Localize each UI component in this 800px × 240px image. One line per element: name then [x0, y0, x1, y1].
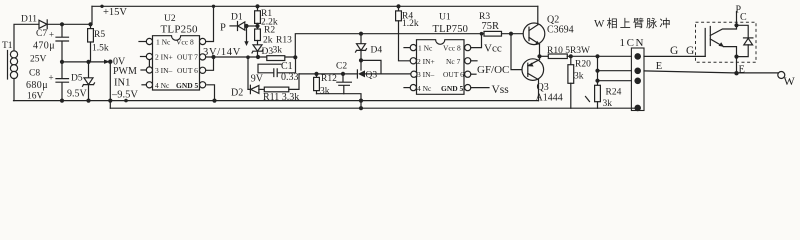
svg-text:1CN: 1CN — [620, 37, 646, 49]
capacitor C1 — [258, 57, 296, 76]
U2 pin2 stub — [141, 56, 147, 58]
Vcc line from R13 node up and right — [295, 34, 484, 58]
svg-text:D4: D4 — [371, 45, 383, 55]
svg-text:TLP750: TLP750 — [433, 24, 469, 35]
+15V rail — [92, 5, 538, 7]
U2 pin7 output wire — [206, 56, 296, 58]
svg-text:3V/14V: 3V/14V — [203, 47, 241, 58]
svg-text:D2: D2 — [231, 88, 243, 99]
svg-text:R2: R2 — [264, 26, 275, 36]
U1 pin1 stub — [404, 47, 410, 49]
svg-text:E: E — [739, 65, 745, 76]
svg-text:IN1: IN1 — [114, 78, 130, 89]
E wire to W terminal — [644, 71, 778, 73]
svg-text:2 IN+: 2 IN+ — [155, 53, 173, 62]
svg-text:+15V: +15V — [103, 7, 127, 18]
svg-text:R5: R5 — [94, 30, 105, 40]
wire IN- net — [299, 73, 357, 75]
U2 pin circles — [146, 38, 152, 44]
svg-text:GND 5: GND 5 — [176, 81, 199, 90]
arrow to Q3 with label — [356, 70, 358, 78]
svg-text:Vcc: Vcc — [484, 42, 502, 54]
svg-text:3k: 3k — [320, 86, 330, 96]
svg-text:3k: 3k — [574, 72, 584, 82]
svg-text:A1444: A1444 — [536, 93, 563, 104]
-9.5V rail (rail1) — [14, 100, 539, 102]
rail tie at x=111 and bottom rail2 — [109, 101, 111, 109]
svg-text:3k: 3k — [603, 99, 613, 109]
svg-text:Vcc 8: Vcc 8 — [176, 38, 194, 47]
svg-text:W相上臂脉冲: W相上臂脉冲 — [594, 16, 673, 30]
svg-text:470μ: 470μ — [33, 41, 55, 52]
node 0V wire with arrow — [62, 61, 105, 63]
U1 pin6 wire GF/OC — [471, 73, 476, 75]
IGBT Q inside module — [704, 29, 706, 57]
svg-text:D1: D1 — [231, 12, 243, 22]
svg-text:R24: R24 — [606, 87, 622, 97]
svg-text:4 Nc: 4 Nc — [417, 84, 432, 93]
svg-text:D11: D11 — [21, 14, 37, 24]
svg-text:E: E — [656, 61, 662, 72]
U2 pin6 loop to pin7 net — [206, 57, 214, 70]
svg-text:2k: 2k — [263, 36, 273, 46]
svg-text:1.5k: 1.5k — [92, 44, 109, 54]
svg-text:C8: C8 — [29, 69, 40, 79]
svg-text:C: C — [740, 12, 747, 23]
svg-text:R11 3.3k: R11 3.3k — [263, 92, 299, 103]
U2 pin5 to rail — [207, 85, 215, 101]
svg-text:OUT 6: OUT 6 — [443, 70, 464, 79]
svg-text:G: G — [670, 45, 678, 57]
wire P to D1 — [230, 25, 238, 27]
svg-text:–9.5V: –9.5V — [111, 89, 138, 100]
svg-text:GF/OC: GF/OC — [477, 64, 509, 76]
svg-text:Q3: Q3 — [366, 70, 378, 80]
svg-text:Vcc 8: Vcc 8 — [443, 44, 461, 53]
svg-text:0.33: 0.33 — [281, 72, 299, 83]
wire to U1 pin3 — [365, 73, 411, 75]
svg-text:D5: D5 — [71, 74, 83, 84]
svg-text:4 Nc: 4 Nc — [155, 81, 170, 90]
wire T1 bottom to rail — [13, 78, 15, 100]
vertical from output wire down to D2 — [247, 57, 249, 89]
svg-text:1 Nc: 1 Nc — [418, 44, 433, 53]
svg-text:+: + — [49, 73, 54, 83]
svg-text:C3694: C3694 — [547, 25, 574, 36]
svg-text:R13: R13 — [276, 36, 292, 46]
svg-text:OUT 7: OUT 7 — [177, 53, 198, 62]
svg-text:Vss: Vss — [492, 84, 510, 96]
freewheel diode — [737, 25, 749, 38]
IGBT module dashed box — [696, 22, 757, 62]
svg-text:9.5V: 9.5V — [67, 89, 88, 100]
svg-text:C7: C7 — [36, 29, 47, 39]
svg-text:1.2k: 1.2k — [402, 19, 419, 29]
bottom rail (rail2) — [110, 107, 637, 109]
svg-text:P: P — [220, 23, 226, 34]
svg-text:R20: R20 — [575, 59, 591, 69]
svg-text:680μ: 680μ — [26, 80, 48, 91]
svg-text:9V: 9V — [251, 73, 264, 84]
svg-text:75R: 75R — [482, 21, 500, 32]
wire T1 top to D11 — [14, 24, 39, 51]
svg-text:2 IN+: 2 IN+ — [417, 57, 435, 66]
svg-text:U2: U2 — [164, 14, 176, 24]
U2 pin8 to +15V rail — [206, 6, 214, 41]
wire D11 to corner — [47, 6, 92, 24]
svg-text:C2: C2 — [336, 61, 347, 71]
svg-text:3 IN–: 3 IN– — [417, 70, 435, 79]
U1 pin4 stub — [404, 87, 410, 89]
svg-text:3k: 3k — [273, 46, 283, 56]
U2 pin4 stub — [142, 84, 146, 86]
svg-text:U1: U1 — [439, 13, 451, 23]
svg-text:1 Nc: 1 Nc — [156, 38, 171, 47]
small tick mark — [586, 97, 590, 102]
svg-text:C1: C1 — [281, 61, 293, 72]
wires R24 column to connector — [598, 70, 632, 72]
U1 pin8 wire Vcc — [471, 34, 482, 48]
svg-text:OUT 6: OUT 6 — [177, 66, 198, 75]
base tie Q2/Q3 — [511, 34, 528, 70]
U1 pin5 wire Vss — [471, 87, 489, 89]
svg-text:R12: R12 — [321, 74, 337, 84]
bottom wire of R12/C2 to rail — [317, 94, 362, 109]
svg-text:T1: T1 — [2, 41, 13, 51]
U2 pin1 stub — [139, 41, 146, 43]
U1 pin circles — [410, 45, 416, 51]
wire PWM to pin3 — [141, 69, 146, 71]
svg-text:+: + — [49, 30, 54, 40]
svg-text:3 IN–: 3 IN– — [155, 66, 173, 75]
svg-text:GND 5: GND 5 — [441, 84, 464, 93]
svg-text:TLP250: TLP250 — [161, 24, 199, 36]
gate wire to module — [644, 55, 705, 57]
U2 pin2-pin3 tie — [148, 60, 150, 67]
D4 node branches — [361, 60, 381, 74]
U1 pin7 stub — [471, 60, 477, 62]
vertical 0V/-9.5V junction line — [109, 62, 111, 101]
svg-text:25V: 25V — [30, 55, 47, 65]
svg-text:Nc 7: Nc 7 — [446, 57, 461, 66]
svg-text:PWM: PWM — [113, 66, 137, 77]
svg-text:G: G — [686, 45, 694, 57]
svg-text:W: W — [784, 74, 796, 88]
